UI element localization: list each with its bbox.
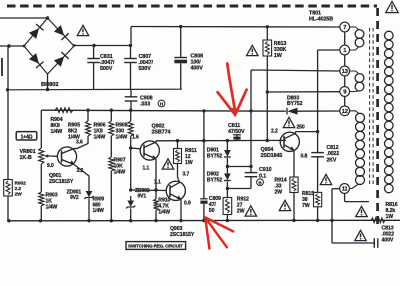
svg-text:0.9: 0.9 bbox=[184, 200, 191, 206]
svg-text:250: 250 bbox=[297, 124, 305, 130]
svg-text:2KV: 2KV bbox=[327, 157, 337, 163]
svg-text:500V: 500V bbox=[100, 66, 113, 72]
svg-text:2.2: 2.2 bbox=[15, 186, 22, 192]
svg-text:2SB774: 2SB774 bbox=[152, 130, 171, 136]
svg-text:.0022: .0022 bbox=[327, 151, 340, 157]
svg-text:7: 7 bbox=[343, 25, 346, 31]
svg-text:1W: 1W bbox=[185, 160, 193, 166]
svg-text:SWITCHING REG. CIRCUIT: SWITCHING REG. CIRCUIT bbox=[128, 244, 183, 249]
svg-text:BY752: BY752 bbox=[287, 101, 303, 107]
svg-text:1/4W: 1/4W bbox=[94, 135, 106, 141]
svg-text:R902: R902 bbox=[15, 181, 27, 187]
svg-text:400V: 400V bbox=[382, 238, 394, 244]
svg-text:1/4W: 1/4W bbox=[158, 210, 170, 216]
svg-text:1/4W: 1/4W bbox=[93, 208, 105, 214]
svg-text:2SC1815Y: 2SC1815Y bbox=[170, 232, 195, 238]
svg-text:C812: C812 bbox=[327, 145, 339, 151]
svg-text:VR801: VR801 bbox=[20, 149, 36, 155]
svg-text:1/4W: 1/4W bbox=[46, 205, 58, 211]
svg-text:C910: C910 bbox=[259, 167, 272, 173]
svg-text:1/4W: 1/4W bbox=[114, 170, 126, 176]
svg-text:1/4W: 1/4W bbox=[51, 129, 63, 135]
svg-text:0.8: 0.8 bbox=[301, 154, 308, 160]
svg-text:HL-4025B: HL-4025B bbox=[309, 17, 333, 23]
svg-text:1W: 1W bbox=[386, 214, 394, 220]
svg-text:3.2: 3.2 bbox=[77, 168, 84, 174]
svg-text:3.7: 3.7 bbox=[183, 172, 190, 178]
svg-text:2.2: 2.2 bbox=[271, 129, 278, 135]
svg-text:50: 50 bbox=[209, 208, 215, 214]
svg-text:Q903: Q903 bbox=[170, 226, 183, 232]
svg-text:BR802: BR802 bbox=[41, 82, 59, 88]
svg-text:7W: 7W bbox=[302, 203, 310, 209]
svg-text:2SD1845: 2SD1845 bbox=[261, 153, 283, 159]
svg-text:3.6: 3.6 bbox=[76, 140, 83, 146]
svg-text:1.6: 1.6 bbox=[132, 135, 139, 141]
svg-text:1K-B: 1K-B bbox=[20, 155, 32, 161]
svg-text:T801: T801 bbox=[309, 11, 321, 17]
svg-text:Q902: Q902 bbox=[152, 124, 165, 130]
svg-text:2W: 2W bbox=[275, 190, 283, 196]
svg-text:1.1: 1.1 bbox=[143, 166, 150, 172]
svg-text:9V1: 9V1 bbox=[138, 194, 147, 200]
svg-text:.033: .033 bbox=[140, 102, 150, 108]
svg-text:BY752: BY752 bbox=[207, 178, 223, 184]
svg-text:12: 12 bbox=[342, 109, 348, 115]
svg-text:9.0: 9.0 bbox=[47, 163, 54, 169]
svg-text:400V: 400V bbox=[191, 66, 204, 72]
svg-text:2W: 2W bbox=[237, 209, 245, 215]
svg-text:9V2: 9V2 bbox=[70, 195, 79, 201]
svg-text:500V: 500V bbox=[139, 66, 152, 72]
svg-text:C811: C811 bbox=[228, 123, 240, 129]
svg-text:1/4W: 1/4W bbox=[116, 135, 128, 141]
svg-text:1+4Ω: 1+4Ω bbox=[21, 134, 33, 140]
svg-text:1.1: 1.1 bbox=[154, 180, 161, 186]
svg-text:BY752: BY752 bbox=[207, 154, 223, 160]
svg-text:47/50V: 47/50V bbox=[228, 129, 245, 135]
svg-text:2W: 2W bbox=[15, 191, 23, 197]
svg-text:2SC1815Y: 2SC1815Y bbox=[49, 179, 74, 185]
svg-text:1W: 1W bbox=[274, 53, 283, 59]
